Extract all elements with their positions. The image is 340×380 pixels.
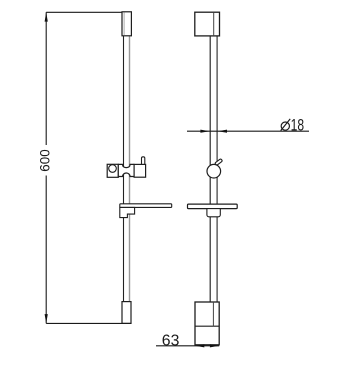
dimension ø18: right arrowhead [218,130,227,133]
dimension ø18: dimension line [187,130,309,132]
handle cone hole circle [109,165,117,173]
rail tube (front view) left edge [123,36,125,302]
dimension 63: left arrowhead (tip at block left edge) [195,344,204,347]
dimension ø18: left arrowhead [200,130,209,133]
slider lever stub (side view) [215,159,223,166]
svg-text:600: 600 [38,149,53,171]
soap dish shelf bar (side view) [188,204,238,209]
slider right block (front view) [134,164,146,177]
shelf mount block, stepped (front view) [120,207,135,217]
dimension 600: vertical dimension line (broken for text) [45,12,47,145]
soap dish shelf bar (front view) [120,204,172,208]
svg-text:18: 18 [291,117,304,135]
slider knob circle (side view) [207,164,221,178]
rail tube (side view) right edge [216,36,218,302]
shelf mount block (side view) [207,209,220,217]
dimension 600: top arrowhead [45,12,48,21]
dimension 600: bottom arrowhead [45,314,48,323]
top wall bracket (front view) [122,12,131,36]
slider left block (handle holder, front view) [107,164,118,177]
dimension ø18: diameter symbol [281,119,291,131]
bottom wall bracket (front view) [122,302,131,324]
top wall block (side view) [195,12,220,36]
slider lever tab (front view) [142,157,145,166]
bottom wall block (side view) [195,302,219,345]
dimension 63: right arrowhead (tip at block right edge) [210,344,219,347]
slider middle body with rail saddle (front view) [118,164,134,176]
rail tube (front view) right edge [129,36,131,302]
rail tube (side view) left edge [209,36,211,302]
dimension 600: bottom extension line [46,322,131,324]
svg-text:63: 63 [162,332,180,349]
dimension 600: top extension line [46,11,122,13]
dimension 63: dimension line [156,345,219,347]
